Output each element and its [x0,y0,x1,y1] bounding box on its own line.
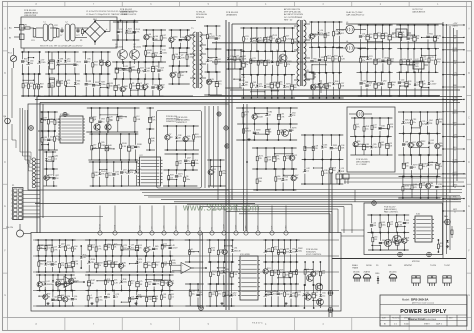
PCB outline box pwm control [28,104,229,190]
svg-text:101: 101 [107,247,110,249]
svg-text:1N4148: 1N4148 [377,35,384,37]
svg-text:L.L.C VIEW: L.L.C VIEW [356,164,367,166]
wire rails of standby primary [240,28,295,98]
regulator IC91 7812 [392,29,411,41]
diode C98 in secondary rectifiers [227,49,233,70]
zen Q2 in snubber [177,47,185,67]
svg-text:ZD92: ZD92 [421,141,426,143]
svg-text:C55: C55 [322,293,326,295]
wire links in gate network row0 [125,33,135,34]
wire rails of driver stage [112,62,163,96]
svg-text:C1 0.22u/275V R3 470K TH1: C1 0.22u/275V R3 470K TH1 5D-9 D1~D4 1N4… [86,11,138,13]
svg-text:3: 3 [11,198,12,200]
wire links in snubber row1 [179,52,187,53]
ecap R75 in aux lower parts [273,147,281,170]
svg-text:D50: D50 [292,112,296,114]
svg-text:C40: C40 [155,36,159,38]
svg-text:D88: D88 [60,58,64,60]
res R34 in inrush diodes [92,51,99,74]
svg-text:C57: C57 [341,83,345,85]
wire op-amp U5A hookup [56,279,85,285]
svg-text:MTP/2SK: MTP/2SK [412,261,420,263]
svg-text:C55: C55 [423,57,427,59]
svg-text:2.2K: 2.2K [169,137,174,139]
svg-text:560: 560 [107,297,110,299]
res D47 in supervisor right B [272,239,278,263]
svg-text:www.320volt.com: www.320volt.com [182,203,260,213]
svg-text:C945: C945 [101,145,106,147]
svg-text:ZD97: ZD97 [90,280,95,282]
zen D82 in aux rail parts [265,107,272,125]
note PCB SD-264 inner label [166,116,179,123]
svg-text:470: 470 [334,58,337,60]
svg-text:7: 7 [11,214,12,216]
svg-text:100u: 100u [259,86,263,88]
svg-text:FSCM NO: FSCM NO [392,318,400,320]
wire secondary vertical bus [226,20,232,310]
wire supervisor internal rail 5 [33,305,339,307]
svg-text:C98: C98 [230,56,234,58]
svg-text:D5: D5 [146,84,148,86]
zen Q52 in supervisor right A [230,283,237,307]
svg-text:ZD57: ZD57 [155,281,160,283]
res R11 in standby secondary [332,46,338,73]
res Q71 in standby primary [250,50,256,75]
diode C17 in fan drive parts [387,232,393,250]
svg-text:D27: D27 [286,36,290,38]
res R43 in daughter upper parts [193,125,202,150]
svg-text:Q7: Q7 [289,130,292,132]
svg-text:L30: L30 [107,294,110,296]
svg-text:R60: R60 [313,58,317,60]
cap C41 in output caps A [359,24,365,49]
wire links in supervisor in B row0 [58,283,72,285]
package TO-92 b [363,271,371,282]
svg-text:R66: R66 [335,81,339,83]
svg-text:D11: D11 [162,50,165,52]
svg-text:L53: L53 [209,58,212,60]
svg-text:D66: D66 [172,260,176,262]
svg-text:L70: L70 [280,38,283,40]
diode ZD90 in standby primary [271,50,273,75]
svg-text:D95: D95 [321,57,325,59]
res R29 in supervisor right B [277,261,286,285]
res ZD91 in standby primary [285,50,292,75]
note top right small [412,9,425,14]
svg-text:D25: D25 [210,79,214,81]
ecap ZD89 in 3.3V regulation [419,154,427,177]
res D13 in supervisor right A [223,283,230,307]
svg-text:Q87: Q87 [55,175,59,177]
ecap C26 in aux rail parts [277,107,285,125]
svg-text:101: 101 [315,274,318,276]
svg-text:C31: C31 [245,36,249,38]
svg-text:560: 560 [68,265,71,267]
wire rails of snubber [169,30,191,84]
svg-text:10u: 10u [381,128,384,130]
terminal pad PE [4,116,11,124]
svg-text:SPW-054: SPW-054 [196,17,204,19]
ecap D80 in output caps A [374,71,381,96]
npn R24 in supervisor in B [62,290,70,307]
svg-text:R88: R88 [30,83,34,85]
svg-text:L10: L10 [373,222,376,224]
wire bus drops into supervisor [98,206,288,236]
diode ZD78 in standby primary [283,74,290,99]
cap C39 in 3.3V regulation [435,176,442,199]
npn D85 in supervisor mid A [118,255,126,272]
wire links in base drive row0 [153,40,162,41]
svg-text:CY2: CY2 [76,35,80,37]
svg-text:Q1: Q1 [171,281,174,283]
ecap Q45 in 3.3V regulation [402,154,409,177]
res L47 in aux rail parts [278,123,287,141]
svg-text:100u: 100u [186,179,190,181]
svg-text:100: 100 [377,85,380,87]
res ZD13 in standby primary [270,27,277,52]
npn D5 in driver stage [142,78,149,97]
svg-text:470: 470 [287,64,290,66]
res ZD89 in base drive [145,45,152,63]
svg-text:Q37: Q37 [412,142,416,144]
zen C57 in supervisor mid A [127,239,134,257]
svg-text:P1: P1 [12,185,14,187]
svg-text:C75: C75 [139,281,143,283]
cap L57 in gate network [117,21,123,41]
diode R23 in gate network [126,21,133,41]
svg-text:POWER SUPPLY: POWER SUPPLY [400,309,447,315]
svg-text:Q12: Q12 [74,261,78,263]
svg-text:470: 470 [87,61,90,63]
wire rails of pwm mid parts [88,134,138,160]
res R33 in protection parts [168,169,174,187]
svg-text:330: 330 [108,175,111,177]
svg-text:100: 100 [405,165,408,167]
wire links in standby primary row2 [250,90,279,92]
svg-text:330: 330 [163,297,166,299]
cap C96 in inrush diodes [84,51,90,75]
svg-text:3.3K: 3.3K [136,119,141,121]
cap C20 in output caps B [398,71,406,96]
res R28 in fan sensor parts [437,239,443,253]
res Q91 in supervisor mid B [160,290,166,307]
wire rails of supervisor mid A [85,240,174,272]
wire links in opamp B lower row0 [189,290,199,291]
npn D64 in snubber [185,29,193,49]
svg-text:D47: D47 [274,246,278,248]
svg-text:Q52: Q52 [259,83,263,85]
svg-text:ZD5: ZD5 [439,143,443,145]
wire rails of pwm upper mid [86,108,139,132]
svg-text:L83: L83 [391,34,394,36]
zen D22 in pwm mid parts lower [127,161,134,186]
res D23 in magamp parts [387,117,393,137]
PCB outline box mag-amp [347,107,395,172]
res L39 in standby secondary [324,21,330,48]
svg-text:330: 330 [408,84,411,86]
wire links in driver stage row1 [130,89,146,90]
diode ZD41 in pwm mid parts lower [99,161,106,187]
svg-text:D21: D21 [114,280,118,282]
cap Q9 in opamp B lower [196,283,203,307]
wire +5V heavy rail [212,42,464,44]
npn C65 in daughter upper parts [183,125,191,151]
svg-text:L71: L71 [97,246,100,248]
res L55 in bulk filter [65,73,71,97]
res D11 in supervisor mid A [161,239,167,257]
svg-text:C95: C95 [416,35,420,37]
svg-text:0.1: 0.1 [30,86,33,88]
svg-text:100u: 100u [391,37,395,39]
svg-text:L55: L55 [67,80,70,82]
svg-text:PS ON: PS ON [100,223,102,229]
wire links in supervisor mid B row1 [121,296,155,303]
wire links in supervisor in B row1 [38,296,59,301]
svg-text:100: 100 [180,75,183,77]
wire links in secondary snubbers row1 [208,57,218,58]
svg-text:2.2K: 2.2K [341,59,346,61]
svg-text:1 OF 1: 1 OF 1 [436,324,442,326]
svg-text:FAN: FAN [444,215,448,218]
svg-text:1M: 1M [40,248,43,250]
wire supervisor internal rail 1 [33,239,339,241]
svg-text:R28: R28 [408,81,412,83]
npn D26 in supervisor in B [69,274,80,291]
zen R11 in supervisor mid B [135,290,143,306]
svg-text:470: 470 [274,249,277,251]
wire rails of pwm left parts [38,112,58,150]
res D77 in pwm left parts [41,111,47,131]
svg-text:101: 101 [440,246,443,248]
res L12 in standby primary [291,27,300,52]
wire links in protection parts row1 [168,179,178,180]
wire COM output 3 [442,160,465,165]
wire fan box feed [341,230,364,236]
svg-text:DPS-260-2A: DPS-260-2A [196,13,207,16]
cap ZD80 in fan drive parts [379,232,387,251]
svg-text:C57: C57 [131,245,135,247]
svg-text:Q60: Q60 [383,81,387,83]
ecap ZD87 in supervisor right B [289,261,297,285]
svg-text:VOLT CONTROL: VOLT CONTROL [306,254,322,256]
cap ZD78 in aux rail parts [289,123,297,141]
svg-text:D77: D77 [43,117,47,119]
svg-text:2.2K: 2.2K [225,294,230,296]
svg-text:(MAINBOARD): (MAINBOARD) [166,118,179,121]
svg-text:TO-220: TO-220 [430,265,436,267]
title model text [402,298,434,305]
ecap C88 in magamp parts [362,136,369,155]
svg-text:1N4148: 1N4148 [234,250,241,252]
res C57 in standby secondary [338,72,344,99]
svg-text:4: 4 [11,202,12,204]
svg-text:0.1: 0.1 [245,39,248,41]
package TO-220 c [443,276,451,286]
svg-text:D46: D46 [151,138,155,140]
res D46 in supervisor right B [283,239,289,263]
diode C64 in supervisor right A [231,239,240,263]
res C34 in 5VSB post-reg [339,134,346,159]
svg-text:DIODE: DIODE [366,265,372,267]
title small cells [382,318,453,326]
svg-text:47u: 47u [245,64,248,66]
svg-text:47u: 47u [218,293,221,295]
res L25 in fan drive parts [387,214,393,232]
svg-text:Q5: Q5 [54,297,57,299]
res R66 in supervisor right A [217,239,223,263]
svg-text:10u: 10u [402,35,405,37]
wire +5V output [442,73,465,78]
terminal pad E0 [29,126,34,131]
res R1 in driver stage [130,78,137,97]
svg-text:R23: R23 [128,28,132,30]
res ZD89 in supervisor in A [38,255,45,273]
svg-text:2: 2 [11,195,12,197]
res Q46 in pwm left parts lower [52,151,58,170]
svg-text:470: 470 [279,84,282,86]
svg-text:F1: F1 [25,25,27,27]
svg-text:ZD58: ZD58 [256,130,261,132]
svg-text:L87: L87 [47,281,50,283]
svg-text:ZD89: ZD89 [422,163,427,165]
wire rails of aux lower parts [252,148,297,190]
capacitor CX2 [50,25,59,37]
wire links in 5VSB post-reg row0 [305,147,315,148]
svg-text:ZD71: ZD71 [178,173,183,175]
wire HV return rail [24,95,193,97]
PCB outline box protection daughter [157,111,202,189]
svg-text:D71: D71 [218,291,222,293]
res ZD25 in aux rail parts [242,107,249,124]
svg-text:R2: R2 [269,129,271,131]
wire links in output caps A row1 [360,56,369,57]
transistor Q5 drive [92,120,100,130]
ecap ZD80 in supervisor mid A [104,255,112,273]
svg-text:TRANS: TRANS [352,266,359,269]
svg-text:TL431: TL431 [324,86,329,88]
res C43 in supervisor right B [296,261,298,284]
svg-text:PWM/PROT: PWM/PROT [176,122,188,124]
zen C42 in 5VSB post-reg [303,159,310,185]
svg-text:101: 101 [148,284,151,286]
svg-text:ZD65: ZD65 [267,37,272,39]
svg-text:16 AC 90 (?) 250V: 16 AC 90 (?) 250V [346,11,363,14]
svg-text:ZD2: ZD2 [93,117,97,119]
svg-text:C96: C96 [87,59,91,61]
svg-text:1M: 1M [43,120,46,122]
svg-text:ZD80: ZD80 [391,82,396,84]
cap R60 in standby secondary [310,46,316,73]
svg-text:IC92: IC92 [415,63,419,65]
connector CN2 [336,174,349,184]
svg-text:D57: D57 [163,35,167,37]
diode C39 in secondary rectifiers [239,68,245,88]
svg-text:330: 330 [40,264,43,266]
note PCB SD-260 line filter header [24,10,38,17]
wire output harness vertical bus [443,22,457,205]
wire -12V output [442,135,465,140]
svg-text:R56: R56 [77,81,81,83]
wire links in aux rail parts row0 [255,113,268,114]
svg-text:C38: C38 [324,170,328,172]
svg-text:101: 101 [91,247,94,249]
ecap ZD65 in standby primary [264,27,272,52]
svg-text:100: 100 [273,273,276,275]
svg-text:U3: U3 [306,70,308,72]
svg-text:100: 100 [439,166,442,168]
transistor Q13 [317,299,324,306]
cap ZD57 in supervisor mid B [153,274,161,291]
svg-text:Q91: Q91 [163,294,167,296]
res D57 in base drive [160,29,167,47]
svg-text:Reverse Circuit: Reverse Circuit [408,318,425,321]
res D93 in volt control parts [319,261,325,286]
ecap C58 in supervisor mid A [104,239,111,257]
zen Q80 in pwm mid parts lower [134,161,141,186]
svg-text:ZD39: ZD39 [233,271,238,273]
svg-text:Q73: Q73 [115,171,119,173]
wire power-good output [442,197,465,202]
cap ZD4 in pwm left parts [47,130,54,151]
svg-text:REV : 02: REV : 02 [284,19,293,21]
wire links in aux lower parts row0 [274,153,293,154]
res C85 in bulk filter [48,73,54,97]
note PCB SD-265 label [356,159,370,166]
diode D11 in base drive [160,45,167,62]
svg-text:18AWG: 18AWG [452,49,459,52]
transistor Q12 [305,294,311,300]
res L13 in pwm mid parts lower [106,161,112,186]
svg-text:D40: D40 [108,145,112,147]
svg-text:100u: 100u [175,57,179,59]
svg-text:D26: D26 [109,83,113,85]
wire links in supervisor right A row1 [217,267,225,268]
cap L38 in 3.3V regulation [402,133,408,155]
svg-text:R28: R28 [440,243,444,245]
res D71 in supervisor right A [216,283,222,307]
note top values row B [86,13,137,16]
svg-text:ZD82: ZD82 [298,248,303,250]
res R1 in opamp B input [189,239,196,263]
wire links in 3.3V regulation row0 [411,127,421,128]
svg-text:D26: D26 [73,278,77,280]
svg-text:ZD89: ZD89 [147,50,152,52]
wire links in supervisor in A row0 [38,245,52,249]
svg-text:D65: D65 [381,125,385,127]
npn Q1 in supervisor mid B [167,274,174,290]
wire rails of secondary snubbers [204,26,222,95]
cap ZD13 in gate network [133,21,141,41]
wire links in aux rail parts row1 [255,134,268,135]
wire links in supervisor mid B row0 [96,279,170,281]
svg-text:0.1: 0.1 [306,171,309,173]
res R15 in supervisor right B [284,283,290,307]
res C57 in supervisor in A [51,239,58,257]
svg-text:1M: 1M [187,139,190,141]
res C37 in supervisor in A [45,239,51,257]
svg-text:D33: D33 [88,81,92,83]
svg-text:101: 101 [50,139,53,141]
svg-text:ZD9: ZD9 [151,117,155,119]
wire links in standby primary row0 [250,38,272,43]
svg-text:C945: C945 [41,62,46,64]
svg-text:Q63: Q63 [368,83,372,85]
svg-text:(ATX Power Code Cxxxxxx): (ATX Power Code Cxxxxxx) [412,301,435,304]
svg-text:L12: L12 [136,116,139,118]
transformer T1 main [190,12,207,88]
svg-text:330: 330 [430,60,433,62]
svg-text:L26: L26 [131,296,134,298]
